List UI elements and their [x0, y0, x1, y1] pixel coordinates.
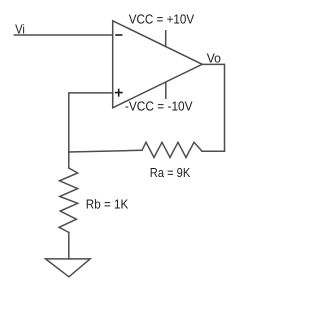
svg-text:-VCC = -10V: -VCC = -10V	[125, 99, 193, 114]
resistor Ra zigzag body	[142, 142, 202, 157]
wire right stub of Ra to output wire	[202, 150, 225, 152]
svg-text:Ra = 9K: Ra = 9K	[150, 165, 191, 180]
node feedback junction	[68, 152, 70, 168]
wire non-inverting input to feedback node	[69, 93, 113, 152]
op-amp inverting input minus sign	[116, 34, 122, 36]
wire Rb to ground	[68, 232, 70, 259]
ground symbol	[46, 259, 91, 277]
resistor Rb zigzag body	[59, 168, 78, 232]
svg-text:VCC = +10V: VCC = +10V	[129, 12, 195, 27]
wire output Vo from op-amp apex right and down	[202, 64, 224, 151]
svg-text:Vi: Vi	[15, 21, 25, 36]
wire Vi input to inverting input	[14, 34, 112, 36]
svg-text:Vo: Vo	[207, 50, 221, 65]
op-amp positive supply pin stub	[165, 31, 167, 47]
op-amp U1 triangle body	[113, 21, 203, 108]
wire feedback node to Ra left stub	[69, 150, 142, 152]
op-amp negative supply pin stub	[165, 82, 167, 98]
svg-text:Rb = 1K: Rb = 1K	[86, 196, 129, 211]
op-amp non-inverting input plus sign	[116, 89, 122, 95]
